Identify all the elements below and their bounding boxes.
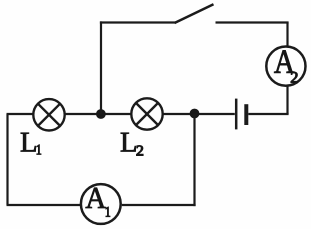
lamp L1 (33, 99, 64, 130)
lamp L2 (131, 98, 162, 129)
node junction 2 (190, 109, 200, 119)
ammeter A2 (266, 47, 305, 86)
wire L2 to battery (163, 113, 235, 115)
wire junction 2 down (193, 114, 195, 206)
wire L1 to L2 (65, 113, 131, 115)
wire bottom left segment (7, 204, 81, 206)
wire A2 top (286, 23, 288, 47)
wire top right segment (216, 21, 289, 23)
wire main left segment (7, 113, 34, 115)
label L2 (121, 133, 143, 156)
wire junction 1 up (100, 21, 102, 114)
ammeter A1 (81, 184, 121, 224)
wire left vertical (6, 114, 8, 205)
node junction 1 (96, 109, 106, 119)
switch blade (175, 4, 214, 23)
battery cell (236, 99, 246, 130)
label L1 (21, 133, 41, 155)
wire bottom right segment (122, 204, 196, 206)
wire top left segment (100, 21, 176, 23)
wire up to A2 (286, 86, 288, 115)
wire battery to right corner (248, 113, 288, 115)
